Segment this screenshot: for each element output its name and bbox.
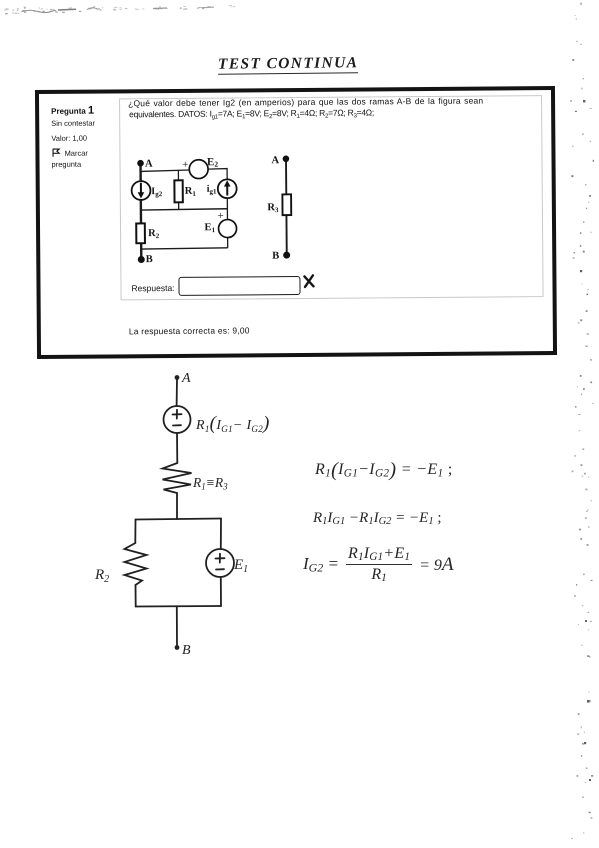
title — [218, 54, 358, 73]
handwritten equation 2 — [313, 510, 442, 527]
sidebar — [51, 106, 121, 169]
question text — [128, 96, 483, 109]
wire: resistor to loop top — [176, 493, 178, 519]
wire: top from A to E2 — [141, 170, 190, 171]
handwritten equation 3 — [303, 545, 454, 584]
wire: loop right top stub — [220, 519, 222, 550]
node B (handwritten) — [175, 645, 180, 650]
handwritten circuit — [88, 363, 273, 663]
resistor R1 — [174, 180, 182, 202]
resistor R2 — [136, 223, 145, 243]
voltage source E1 (handwritten) — [206, 549, 234, 577]
current source Ig1 — [218, 179, 237, 198]
printed circuit figure — [127, 150, 304, 267]
voltage source E2 — [189, 160, 208, 179]
voltage source R1(Ig1-Ig2) — [164, 406, 191, 433]
current source Ig2 — [132, 181, 151, 200]
node A (right) — [283, 155, 290, 162]
wire: E1 bottom to bottom rail — [227, 238, 229, 248]
wire: E2 to Ig1 corner — [208, 169, 227, 180]
wire: right branch A to B — [285, 159, 288, 255]
wire: source to resistor — [176, 433, 178, 463]
node A (handwritten) — [175, 375, 180, 380]
resistor R2 (zigzag, left side) — [125, 543, 147, 585]
flag icon — [51, 148, 60, 157]
node A (left) — [137, 160, 144, 167]
wire: loop to B — [176, 606, 178, 646]
node B (left) — [138, 256, 145, 263]
wire: A down to source — [176, 379, 178, 406]
node B (right) — [283, 252, 290, 259]
wire: R1 branch stubs — [177, 170, 179, 209]
correct answer — [129, 325, 250, 336]
wire: loop left bottom stub — [135, 585, 137, 607]
wire: middle horizontal — [141, 209, 228, 210]
wire: loop top — [136, 519, 222, 520]
wire: Ig1 down through E1 node — [226, 198, 228, 220]
inner content box — [119, 95, 544, 300]
wire: loop left top stub — [134, 520, 136, 544]
respuesta row — [131, 283, 174, 293]
resistor R3 — [282, 194, 291, 215]
wire: bottom horizontal — [141, 248, 228, 249]
resistor R1=R3 (zigzag) — [163, 463, 192, 493]
wire: loop bottom — [136, 605, 221, 608]
scan smudge top edge — [0, 0, 260, 18]
wire: left vertical A to B — [139, 163, 142, 259]
handwritten equation 1 — [315, 459, 453, 482]
wire: loop right bottom stub — [220, 577, 222, 606]
voltage source E1 — [218, 219, 236, 237]
question outer box — [35, 86, 557, 359]
